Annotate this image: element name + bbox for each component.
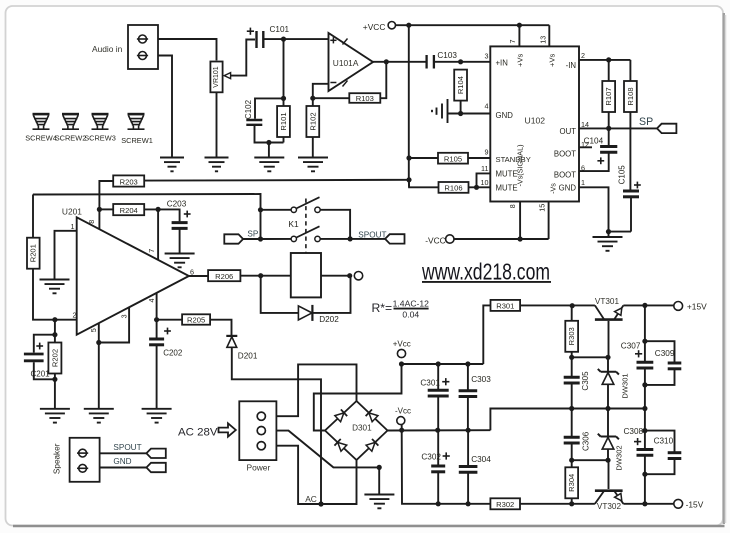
svg-text:SCREW3: SCREW3 <box>84 134 116 143</box>
svg-text:R105: R105 <box>444 154 462 163</box>
svg-text:11: 11 <box>481 164 488 173</box>
svg-text:R107: R107 <box>604 87 613 105</box>
svg-text:R102: R102 <box>308 112 317 130</box>
svg-text:+IN: +IN <box>496 59 508 68</box>
svg-text:+VCC: +VCC <box>363 22 386 32</box>
svg-text:MUTE: MUTE <box>496 169 518 178</box>
svg-text:AC 28V: AC 28V <box>178 427 219 439</box>
svg-text:U101A: U101A <box>333 58 359 68</box>
svg-text:C101: C101 <box>270 25 290 34</box>
svg-text:U201: U201 <box>62 206 82 216</box>
svg-text:C305: C305 <box>581 371 590 391</box>
svg-text:C309: C309 <box>655 349 675 358</box>
svg-text:C302: C302 <box>421 453 441 462</box>
svg-text:D202: D202 <box>319 315 339 324</box>
svg-text:4: 4 <box>485 102 489 111</box>
svg-text:AC: AC <box>305 494 317 504</box>
svg-text:Audio in: Audio in <box>92 44 123 54</box>
svg-text:STANDBY: STANDBY <box>496 155 531 164</box>
svg-text:R106: R106 <box>444 184 462 193</box>
svg-text:R301: R301 <box>496 302 514 311</box>
svg-text:2: 2 <box>581 51 585 60</box>
svg-text:SPOUT: SPOUT <box>113 443 141 452</box>
svg-text:SP: SP <box>639 116 653 128</box>
svg-text:BOOT: BOOT <box>554 171 576 180</box>
svg-text:1: 1 <box>71 222 75 231</box>
svg-text:C308: C308 <box>624 427 644 436</box>
svg-text:SCREW2: SCREW2 <box>55 134 87 143</box>
svg-text:1: 1 <box>581 178 585 187</box>
svg-text:U102: U102 <box>525 116 546 126</box>
svg-text:R108: R108 <box>626 87 635 105</box>
svg-text:C306: C306 <box>581 431 590 451</box>
svg-text:15: 15 <box>537 204 546 212</box>
svg-text:Speaker: Speaker <box>53 443 62 474</box>
svg-text:10: 10 <box>481 178 489 187</box>
svg-text:+Vs: +Vs <box>548 53 557 66</box>
svg-text:R303: R303 <box>567 327 576 345</box>
svg-text:SCREW1: SCREW1 <box>121 136 153 145</box>
svg-text:C104: C104 <box>584 137 604 146</box>
svg-text:R204: R204 <box>120 206 138 215</box>
svg-text:-Vcc: -Vcc <box>395 407 411 416</box>
svg-text:7: 7 <box>508 40 517 44</box>
svg-text:4: 4 <box>147 299 156 303</box>
svg-text:DW302: DW302 <box>614 445 623 470</box>
svg-text:OUT: OUT <box>560 127 577 136</box>
svg-text:D201: D201 <box>238 351 258 360</box>
svg-text:-VCC: -VCC <box>425 236 445 246</box>
svg-text:+Vs: +Vs <box>516 53 525 66</box>
svg-text:R304: R304 <box>567 474 576 492</box>
svg-text:GND: GND <box>496 111 514 120</box>
svg-text:13: 13 <box>538 36 547 44</box>
svg-text:-15V: -15V <box>686 499 704 509</box>
svg-text:R201: R201 <box>29 244 38 262</box>
svg-text:SPOUT: SPOUT <box>358 230 386 239</box>
svg-text:SCREW4: SCREW4 <box>25 134 57 143</box>
svg-text:MUTE: MUTE <box>496 184 518 193</box>
svg-text:R203: R203 <box>120 177 138 186</box>
svg-text:3: 3 <box>119 314 128 318</box>
svg-text:VT302: VT302 <box>597 502 622 511</box>
svg-text:-Vs(SIGNAL): -Vs(SIGNAL) <box>516 145 525 187</box>
svg-text:R205: R205 <box>187 316 205 325</box>
svg-text:VR101: VR101 <box>213 66 220 88</box>
svg-text:K1: K1 <box>288 219 299 229</box>
svg-text:-IN: -IN <box>566 61 576 70</box>
svg-text:DW301: DW301 <box>621 373 630 398</box>
svg-text:R202: R202 <box>50 349 59 367</box>
svg-text:C103: C103 <box>437 51 457 60</box>
svg-text:5: 5 <box>89 328 98 332</box>
svg-text:R206: R206 <box>215 272 233 281</box>
svg-text:GND: GND <box>113 457 131 466</box>
svg-text:C307: C307 <box>621 341 641 350</box>
svg-text:1.4AC-12: 1.4AC-12 <box>393 298 430 308</box>
svg-text:3: 3 <box>485 52 489 61</box>
svg-text:2: 2 <box>73 311 77 320</box>
svg-text:www.xd218.com: www.xd218.com <box>421 259 550 285</box>
svg-text:+15V: +15V <box>687 301 707 311</box>
svg-text:Power: Power <box>247 462 271 472</box>
svg-text:C303: C303 <box>471 375 491 384</box>
svg-text:R101: R101 <box>279 112 288 130</box>
svg-text:-Vs: -Vs <box>549 183 558 194</box>
svg-text:C310: C310 <box>654 437 674 446</box>
svg-text:R302: R302 <box>496 500 514 509</box>
svg-text:C304: C304 <box>471 455 491 464</box>
svg-text:7: 7 <box>147 249 156 253</box>
svg-text:VT301: VT301 <box>595 297 620 306</box>
svg-text:BOOT: BOOT <box>554 150 576 159</box>
svg-text:8: 8 <box>508 204 517 208</box>
svg-text:C105: C105 <box>617 165 626 185</box>
svg-text:9: 9 <box>485 148 489 157</box>
svg-text:D301: D301 <box>352 423 372 432</box>
svg-text:8: 8 <box>87 220 96 224</box>
svg-text:R*=: R*= <box>372 301 393 315</box>
svg-text:C301: C301 <box>420 378 440 387</box>
svg-text:C203: C203 <box>167 200 187 209</box>
svg-text:C202: C202 <box>163 349 183 358</box>
svg-text:GND: GND <box>559 184 577 193</box>
svg-text:C102: C102 <box>244 99 253 119</box>
svg-text:R103: R103 <box>356 94 374 103</box>
svg-text:SP: SP <box>247 230 258 239</box>
svg-text:R104: R104 <box>456 76 465 94</box>
svg-text:0.04: 0.04 <box>402 309 419 319</box>
svg-text:+Vcc: +Vcc <box>393 339 411 348</box>
